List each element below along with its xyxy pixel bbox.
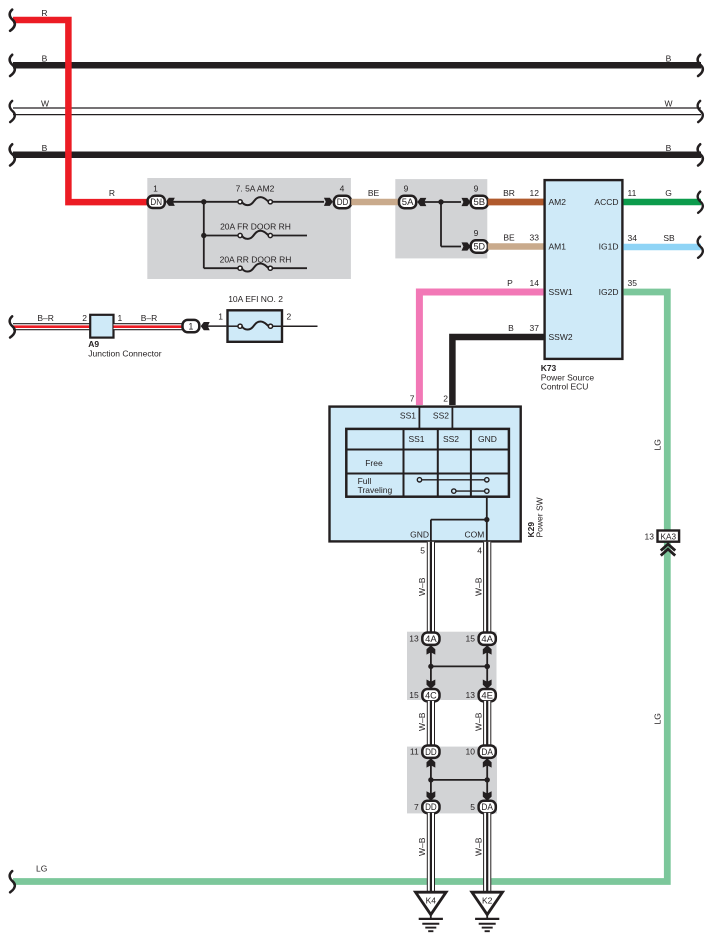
svg-text:SS2: SS2 (433, 411, 449, 421)
svg-text:BE: BE (503, 233, 515, 243)
svg-text:1: 1 (218, 311, 223, 321)
svg-text:10: 10 (466, 747, 476, 757)
svg-text:W–B: W–B (417, 712, 427, 731)
svg-text:4E: 4E (481, 690, 493, 700)
svg-text:12: 12 (530, 188, 540, 198)
svg-text:AM2: AM2 (549, 197, 567, 207)
svg-text:SS1: SS1 (400, 411, 416, 421)
svg-text:37: 37 (530, 323, 540, 333)
svg-text:5B: 5B (474, 197, 486, 207)
svg-text:IG1D: IG1D (599, 242, 619, 252)
svg-text:1: 1 (188, 321, 193, 331)
svg-text:2: 2 (82, 313, 87, 323)
svg-text:K4: K4 (426, 895, 437, 905)
svg-text:7: 7 (410, 393, 415, 403)
svg-text:B–R: B–R (141, 313, 158, 323)
svg-text:4: 4 (340, 184, 345, 194)
svg-text:DD: DD (337, 197, 349, 207)
svg-text:13: 13 (466, 690, 476, 700)
svg-text:7: 7 (414, 802, 419, 812)
svg-text:5: 5 (420, 546, 425, 556)
svg-text:Control ECU: Control ECU (541, 381, 589, 391)
svg-text:BR: BR (503, 188, 515, 198)
svg-text:5D: 5D (474, 242, 486, 252)
svg-text:W–B: W–B (474, 712, 484, 731)
svg-text:IG2D: IG2D (599, 287, 619, 297)
svg-text:Junction Connector: Junction Connector (88, 348, 161, 358)
svg-text:2: 2 (287, 311, 292, 321)
svg-text:10A EFI NO. 2: 10A EFI NO. 2 (228, 294, 283, 304)
svg-text:4C: 4C (425, 690, 437, 700)
svg-text:P: P (507, 278, 513, 288)
svg-text:4A: 4A (481, 634, 493, 644)
svg-text:20A FR DOOR RH: 20A FR DOOR RH (220, 222, 291, 232)
svg-text:33: 33 (530, 233, 540, 243)
svg-text:B–R: B–R (37, 313, 54, 323)
svg-text:15: 15 (466, 634, 476, 644)
svg-text:G: G (665, 188, 672, 198)
svg-text:R: R (41, 8, 47, 18)
svg-text:SS1: SS1 (408, 434, 424, 444)
svg-text:SSW1: SSW1 (549, 287, 573, 297)
svg-text:DN: DN (150, 197, 162, 207)
svg-text:20A RR DOOR RH: 20A RR DOOR RH (220, 254, 292, 264)
svg-text:1: 1 (118, 313, 123, 323)
svg-text:Free: Free (365, 458, 383, 468)
svg-text:DD: DD (425, 802, 437, 812)
svg-text:B: B (42, 53, 48, 63)
svg-text:34: 34 (628, 233, 638, 243)
svg-text:B: B (666, 143, 672, 153)
svg-text:W–B: W–B (474, 837, 484, 856)
svg-text:4: 4 (477, 546, 482, 556)
svg-text:9: 9 (474, 184, 479, 194)
svg-text:R: R (109, 188, 115, 198)
svg-text:AM1: AM1 (549, 242, 567, 252)
svg-text:13: 13 (645, 531, 655, 541)
svg-text:W: W (41, 98, 49, 108)
svg-text:B: B (42, 143, 48, 153)
svg-text:1: 1 (153, 184, 158, 194)
svg-text:B: B (508, 323, 514, 333)
svg-text:W: W (664, 98, 672, 108)
svg-text:BE: BE (368, 188, 380, 198)
svg-text:B: B (666, 53, 672, 63)
svg-text:ACCD: ACCD (594, 197, 618, 207)
svg-text:15: 15 (409, 690, 419, 700)
svg-text:5: 5 (470, 802, 475, 812)
svg-text:SS2: SS2 (443, 434, 459, 444)
svg-text:9: 9 (474, 228, 479, 238)
svg-text:K2: K2 (482, 895, 493, 905)
svg-text:KA3: KA3 (661, 533, 677, 542)
svg-text:DD: DD (425, 747, 437, 757)
svg-text:13: 13 (409, 634, 419, 644)
svg-text:7. 5A AM2: 7. 5A AM2 (236, 184, 275, 194)
svg-text:Traveling: Traveling (358, 485, 393, 495)
svg-text:35: 35 (628, 278, 638, 288)
svg-text:11: 11 (410, 747, 419, 757)
svg-text:14: 14 (530, 278, 540, 288)
svg-text:W–B: W–B (417, 577, 427, 596)
svg-text:W–B: W–B (417, 837, 427, 856)
svg-text:9: 9 (404, 184, 409, 194)
svg-text:COM: COM (465, 529, 485, 539)
svg-text:11: 11 (628, 188, 637, 198)
svg-text:Power SW: Power SW (534, 497, 544, 537)
svg-text:5A: 5A (402, 197, 414, 207)
svg-text:GND: GND (478, 434, 497, 444)
svg-text:GND: GND (410, 529, 429, 539)
svg-text:4A: 4A (425, 634, 437, 644)
svg-text:W–B: W–B (474, 577, 484, 596)
svg-text:DA: DA (481, 802, 493, 812)
svg-text:2: 2 (443, 393, 448, 403)
svg-text:DA: DA (481, 747, 493, 757)
svg-text:SSW2: SSW2 (549, 332, 573, 342)
svg-text:LG: LG (653, 713, 663, 724)
svg-text:SB: SB (663, 233, 675, 243)
svg-text:LG: LG (653, 439, 663, 450)
svg-text:LG: LG (36, 864, 47, 874)
